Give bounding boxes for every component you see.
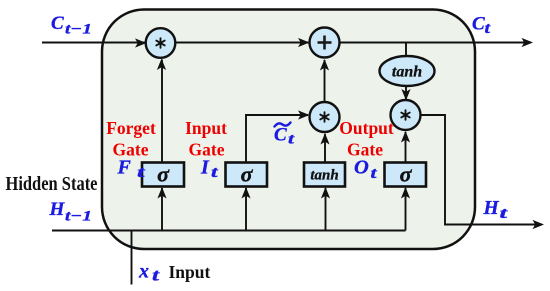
svg-text:t: t xyxy=(371,165,378,182)
svg-text:x: x xyxy=(138,261,149,283)
wire: hidden state output H(t) xyxy=(421,115,543,225)
svg-text:C: C xyxy=(274,125,287,146)
LSTM cell body xyxy=(102,10,475,250)
wire: top line drop into tanh ellipse xyxy=(405,43,407,58)
svg-text:t: t xyxy=(500,205,509,222)
wire: multiply node to plus node xyxy=(324,60,326,103)
box: candidate tanh xyxy=(304,163,345,187)
node: output multiply circle xyxy=(391,100,421,130)
box: forget sigma xyxy=(142,163,184,187)
svg-text:F: F xyxy=(117,157,132,179)
wire: x(t) input riser xyxy=(131,231,133,285)
svg-text:Forget: Forget xyxy=(106,118,156,138)
svg-text:t−1: t−1 xyxy=(65,22,92,38)
svg-text:H: H xyxy=(483,198,500,219)
svg-text:t: t xyxy=(211,164,219,181)
svg-text:t: t xyxy=(152,266,160,285)
svg-text:C: C xyxy=(51,13,64,34)
node: candidate multiply circle xyxy=(310,102,340,132)
svg-text:σ: σ xyxy=(241,162,254,187)
wire: tanh ellipse to output multiply node xyxy=(405,86,407,99)
node: forget multiply circle xyxy=(146,28,176,58)
wire: input gate riser xyxy=(245,188,247,231)
box: input sigma xyxy=(226,163,268,187)
svg-text:t: t xyxy=(137,164,146,181)
svg-text:Input: Input xyxy=(185,118,227,138)
wire: input sigma to multiply node xyxy=(246,115,308,163)
wire: hidden state bottom line xyxy=(52,230,406,232)
svg-text:tanh: tanh xyxy=(310,168,338,184)
wire: cell state line C(t-1) to C(t) xyxy=(42,42,531,44)
svg-text:tanh: tanh xyxy=(392,64,422,81)
svg-text:Input: Input xyxy=(169,262,211,282)
node: plus circle xyxy=(310,28,340,58)
wire: output sigma to multiply node xyxy=(405,132,407,163)
wire: output gate riser xyxy=(405,188,407,231)
svg-text:O: O xyxy=(354,157,369,179)
svg-text:H: H xyxy=(49,199,66,220)
svg-text:t: t xyxy=(485,20,491,37)
svg-text:Output: Output xyxy=(339,118,394,138)
wire: forget sigma to multiply node xyxy=(161,60,163,163)
wire: forget gate riser xyxy=(161,188,163,231)
svg-text:C: C xyxy=(472,14,485,35)
svg-text:I: I xyxy=(200,157,210,179)
wire: tanh box to multiply node xyxy=(324,134,326,163)
svg-text:t−1: t−1 xyxy=(65,209,92,225)
node: tanh ellipse xyxy=(380,56,435,86)
box: output sigma xyxy=(385,163,427,187)
svg-text:σ: σ xyxy=(157,162,170,187)
svg-text:σ: σ xyxy=(400,162,413,187)
svg-text:Hidden State: Hidden State xyxy=(6,174,98,195)
wire: tanh box riser xyxy=(325,188,327,231)
